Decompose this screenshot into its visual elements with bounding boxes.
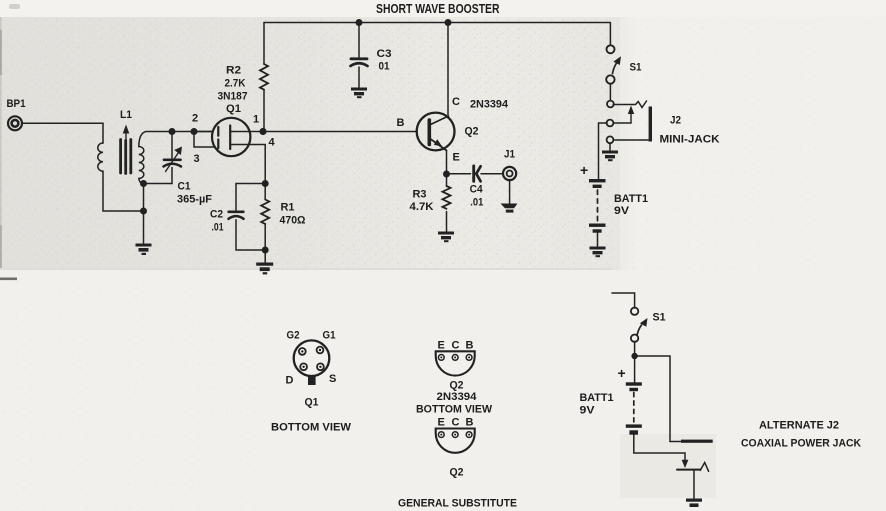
ground coax jack bbox=[686, 499, 702, 508]
svg-text:3: 3 bbox=[194, 153, 200, 165]
node secondary/C1 bottom junction bbox=[140, 180, 147, 187]
ground BATT1 bbox=[590, 247, 606, 258]
wire emitter down bbox=[446, 151, 448, 175]
ground R1 bbox=[256, 263, 273, 275]
pin 1 drain lead bbox=[231, 131, 263, 133]
wire battery plus feed bbox=[599, 123, 608, 179]
svg-text:+: + bbox=[580, 162, 588, 178]
binding post BP1 bbox=[8, 116, 22, 130]
svg-text:L1: L1 bbox=[120, 109, 132, 121]
capacitor C3 bbox=[358, 23, 360, 58]
node gate junction bbox=[191, 128, 198, 135]
node rail-Q2 collector junction bbox=[445, 19, 452, 26]
node primary return junction bbox=[140, 208, 147, 215]
svg-text:COAXIAL POWER JACK: COAXIAL POWER JACK bbox=[741, 438, 861, 450]
coax jack sleeve contact bbox=[681, 440, 713, 443]
svg-text:Q2: Q2 bbox=[450, 380, 464, 392]
svg-text:+: + bbox=[618, 365, 626, 381]
wire secondary bottom hook bbox=[139, 179, 144, 184]
svg-text:B: B bbox=[466, 339, 474, 351]
svg-text:2N3394: 2N3394 bbox=[470, 99, 509, 111]
Q1 bottom view bbox=[294, 340, 330, 376]
node rail-C3 junction bbox=[356, 19, 363, 26]
svg-text:2: 2 bbox=[192, 113, 198, 125]
coax jack contact plate bbox=[677, 469, 700, 471]
svg-text:D: D bbox=[286, 375, 294, 387]
wire junction to coax jack sleeve bbox=[635, 356, 681, 442]
svg-text:R2: R2 bbox=[226, 65, 241, 77]
wire plate to ground bbox=[693, 471, 695, 499]
coax jack spring contact bbox=[700, 463, 708, 472]
wire down to primary return bbox=[143, 184, 145, 244]
wire C1 bottom to junction bbox=[144, 183, 173, 185]
svg-text:Q1: Q1 bbox=[305, 397, 319, 409]
dark dash bottom-left edge of block bbox=[0, 278, 17, 281]
svg-text:Q1: Q1 bbox=[226, 103, 241, 115]
svg-text:.01: .01 bbox=[470, 197, 483, 209]
svg-text:1: 1 bbox=[253, 114, 259, 126]
switch S1 (alternate) bbox=[631, 308, 638, 315]
scan edge shadow left bbox=[0, 17, 2, 270]
capacitor C4 bbox=[447, 173, 471, 175]
jack J1 bbox=[503, 167, 516, 180]
svg-text:470Ω: 470Ω bbox=[280, 215, 306, 227]
node drain junction bbox=[259, 128, 266, 135]
svg-text:C1: C1 bbox=[178, 181, 191, 193]
switch S1 bbox=[609, 23, 611, 46]
svg-text:ALTERNATE J2: ALTERNATE J2 bbox=[759, 420, 839, 432]
node emitter junction bbox=[443, 171, 450, 178]
coax jack center pin arrow bbox=[682, 460, 689, 468]
capacitor C1 (variable) bbox=[171, 132, 173, 159]
svg-text:Q2: Q2 bbox=[450, 467, 464, 479]
svg-text:C3: C3 bbox=[377, 48, 392, 60]
svg-text:BOTTOM VIEW: BOTTOM VIEW bbox=[416, 404, 493, 416]
gray patch bottom right of alt jack bbox=[620, 434, 716, 498]
svg-text:SHORT WAVE BOOSTER: SHORT WAVE BOOSTER bbox=[376, 2, 500, 16]
svg-text:.01: .01 bbox=[212, 222, 224, 234]
wire drain to Q2 base bbox=[263, 131, 417, 133]
svg-text:9V: 9V bbox=[614, 205, 630, 217]
svg-text:365-µF: 365-µF bbox=[177, 194, 212, 206]
MOSFET Q1 3N187 bbox=[212, 118, 250, 156]
svg-text:BOTTOM VIEW: BOTTOM VIEW bbox=[271, 422, 352, 434]
wire secondary top to gate node bbox=[139, 132, 213, 147]
svg-text:E: E bbox=[438, 417, 445, 429]
L1 tuning arrow bbox=[125, 131, 127, 140]
node battery/jack junction bbox=[631, 353, 637, 359]
svg-text:R3: R3 bbox=[413, 189, 427, 201]
wire gate2 lead bbox=[194, 131, 213, 133]
svg-text:R1: R1 bbox=[281, 202, 295, 214]
resistor R2 bbox=[263, 23, 265, 65]
L1 core bars bbox=[121, 140, 131, 174]
svg-text:S1: S1 bbox=[653, 312, 666, 324]
wire gate1 lead bbox=[194, 132, 215, 148]
svg-text:Q2: Q2 bbox=[465, 126, 479, 138]
svg-text:MINI-JACK: MINI-JACK bbox=[660, 134, 720, 146]
svg-text:B: B bbox=[466, 417, 474, 429]
wire primary bottom to ground node bbox=[103, 171, 144, 211]
resistor R1 bbox=[262, 180, 269, 187]
node C1 top junction bbox=[169, 128, 176, 135]
svg-text:J2: J2 bbox=[670, 115, 681, 127]
pin 4 source lead bbox=[231, 145, 265, 184]
wire stub top bbox=[612, 293, 635, 308]
svg-text:C2: C2 bbox=[210, 209, 223, 221]
svg-text:BP1: BP1 bbox=[7, 98, 26, 110]
battery BATT1 (alternate) bbox=[634, 356, 636, 382]
wire top supply rail bbox=[264, 22, 610, 24]
svg-text:BATT1: BATT1 bbox=[580, 392, 614, 404]
svg-text:E: E bbox=[453, 152, 460, 164]
Q2 bottom view bbox=[436, 351, 475, 375]
ground J1 bbox=[501, 204, 518, 213]
svg-text:B: B bbox=[397, 117, 405, 129]
svg-text:J1: J1 bbox=[504, 149, 515, 161]
svg-text:BATT1: BATT1 bbox=[614, 193, 648, 205]
ground L1 bbox=[136, 244, 152, 256]
svg-text:01: 01 bbox=[379, 61, 390, 73]
scanned gray block (top schematic area) bbox=[0, 17, 612, 270]
transistor Q2 2N3394 bbox=[447, 23, 449, 115]
faint speckle over rest bbox=[616, 17, 826, 270]
svg-text:E: E bbox=[438, 339, 445, 351]
jack J2 mini-jack bbox=[613, 101, 646, 108]
svg-text:G1: G1 bbox=[323, 330, 336, 342]
inductor L1 secondary winding bbox=[139, 147, 144, 179]
svg-text:S: S bbox=[329, 373, 336, 385]
svg-text:C: C bbox=[452, 339, 460, 351]
svg-text:4: 4 bbox=[269, 137, 276, 149]
svg-text:9V: 9V bbox=[580, 405, 596, 417]
svg-text:3N187: 3N187 bbox=[218, 91, 248, 103]
svg-text:C4: C4 bbox=[470, 184, 484, 196]
svg-text:C: C bbox=[452, 417, 460, 429]
svg-text:2N3394: 2N3394 bbox=[437, 391, 478, 403]
resistor R3 bbox=[446, 174, 448, 186]
ground R3 bbox=[438, 232, 454, 243]
wire BP1 to L1 primary bbox=[22, 123, 103, 143]
ground C3 bbox=[351, 88, 367, 99]
capacitor C2 bbox=[236, 184, 265, 211]
smudge top-left bbox=[9, 4, 20, 9]
svg-text:S1: S1 bbox=[630, 62, 642, 74]
ground J2 bbox=[602, 151, 618, 162]
inductor L1 primary winding bbox=[98, 143, 103, 171]
svg-text:C: C bbox=[452, 96, 460, 108]
svg-text:GENERAL SUBSTITUTE: GENERAL SUBSTITUTE bbox=[398, 498, 517, 510]
wire battery minus to coax center pin bbox=[634, 435, 685, 461]
svg-text:G2: G2 bbox=[287, 330, 300, 342]
svg-text:2.7K: 2.7K bbox=[225, 78, 246, 90]
svg-text:4.7K: 4.7K bbox=[410, 201, 434, 213]
